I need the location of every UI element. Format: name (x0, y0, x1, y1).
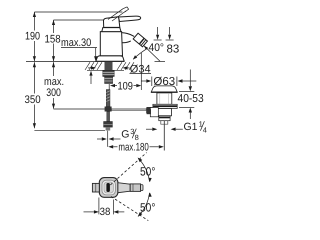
handle tip (141, 185, 143, 191)
pop-up rod upper (106, 90, 110, 107)
neck (157, 93, 172, 104)
lever hub (104, 17, 120, 28)
40 degree arc (133, 48, 147, 59)
left tab (92, 183, 99, 192)
Ø63 dimension (141, 80, 146, 82)
max.180 dimension (108, 145, 113, 148)
spout arm top edge (122, 33, 135, 37)
40 degree axis line (144, 46, 160, 62)
83 / 40deg ticks and arrows (154, 27, 174, 40)
raised lever position strokes (108, 7, 129, 21)
arc arrowheads (138, 158, 143, 163)
tailpipe (163, 121, 165, 151)
swivel arcs (138, 158, 149, 181)
slot (106, 183, 110, 192)
extension line 350 bottom y=130.7 (34, 130, 105, 132)
arc arrowhead (133, 55, 137, 59)
svg-text:109: 109 (118, 80, 133, 92)
svg-text:300: 300 (46, 87, 61, 99)
cross fitting (105, 107, 112, 112)
max300 down arrow (52, 104, 55, 109)
svg-text:50°: 50° (140, 200, 156, 214)
svg-text:190: 190 (25, 30, 40, 42)
G3/8 leader arrows (97, 138, 102, 140)
cap under lever (102, 28, 121, 32)
aerator (133, 33, 147, 47)
38 dimension line and arrows (84, 211, 94, 213)
mounting nut (103, 71, 114, 77)
G3/8 nut (104, 122, 113, 128)
svg-text:38: 38 (100, 206, 111, 218)
shank through deck (105, 62, 113, 70)
spout arm bottom edge (122, 41, 130, 43)
drain body (157, 109, 171, 116)
tailpipe shoulder (161, 121, 168, 125)
svg-text:83: 83 (167, 43, 180, 55)
escutcheon base (96, 56, 124, 62)
threaded shank (105, 77, 113, 84)
svg-text:158: 158 (45, 34, 61, 46)
faucet side view (96, 16, 141, 61)
109 dimension (109, 53, 141, 90)
dome cap (151, 86, 177, 92)
seal ring (153, 104, 177, 108)
svg-text:G: G (121, 129, 129, 141)
extension line top (lever top level y=12) (34, 11, 122, 13)
svg-text:40-53: 40-53 (178, 93, 204, 105)
158 down arrow at deck (52, 56, 55, 61)
40-53 dimension (179, 70, 194, 120)
svg-text:max.180: max.180 (118, 142, 148, 154)
arrow into aerator along axis (144, 46, 148, 50)
lever arm (119, 16, 141, 21)
tailpipe collar (159, 116, 170, 121)
lower rod (107, 112, 110, 122)
190 up arrow (33, 12, 36, 17)
arrowheads for vertical dims (33, 12, 55, 128)
svg-text:350: 350 (25, 94, 41, 106)
svg-text:4: 4 (203, 126, 207, 135)
dimension max.300 vertical line (53, 62, 55, 76)
extension line (body top level y=20) (54, 19, 104, 21)
svg-text:max.30: max.30 (61, 37, 91, 49)
deck bottom line (87, 69, 124, 71)
body (rounded square) (99, 178, 118, 198)
G1 1/4 label (146, 128, 152, 130)
horizontal pop-up rod (112, 109, 147, 111)
inner square edge (104, 182, 113, 193)
dimension 350 vertical line (33, 62, 35, 93)
rod end connector at drain (146, 107, 152, 114)
158 up arrow (52, 20, 55, 25)
inner highlight ring (102, 180, 115, 195)
Ø34 dimension (91, 66, 96, 69)
38 dimension ticks (98, 198, 100, 215)
side port (150, 108, 158, 117)
svg-text:G1: G1 (184, 121, 198, 133)
deck hatching (85, 62, 134, 70)
swivel dashed lines (110, 153, 146, 185)
nut tail (106, 127, 111, 130)
max300 up arrow below deck (52, 62, 55, 67)
dimension 158 vertical line (53, 20, 55, 33)
350 up arrow below deck (33, 62, 36, 67)
svg-text:40°: 40° (149, 42, 164, 54)
deck top line (26, 61, 124, 63)
dimension 190 vertical line (33, 12, 35, 31)
svg-text:50°: 50° (140, 164, 156, 178)
text G3/8 (121, 127, 138, 142)
extension line below nut (107, 131, 109, 147)
handle grip (130, 184, 140, 192)
faucet body (100, 32, 122, 56)
handle neck (118, 183, 130, 193)
350 down arrow (33, 123, 36, 128)
190 down arrow at deck (33, 56, 36, 61)
extension line max300 bottom y=109 (54, 108, 106, 110)
